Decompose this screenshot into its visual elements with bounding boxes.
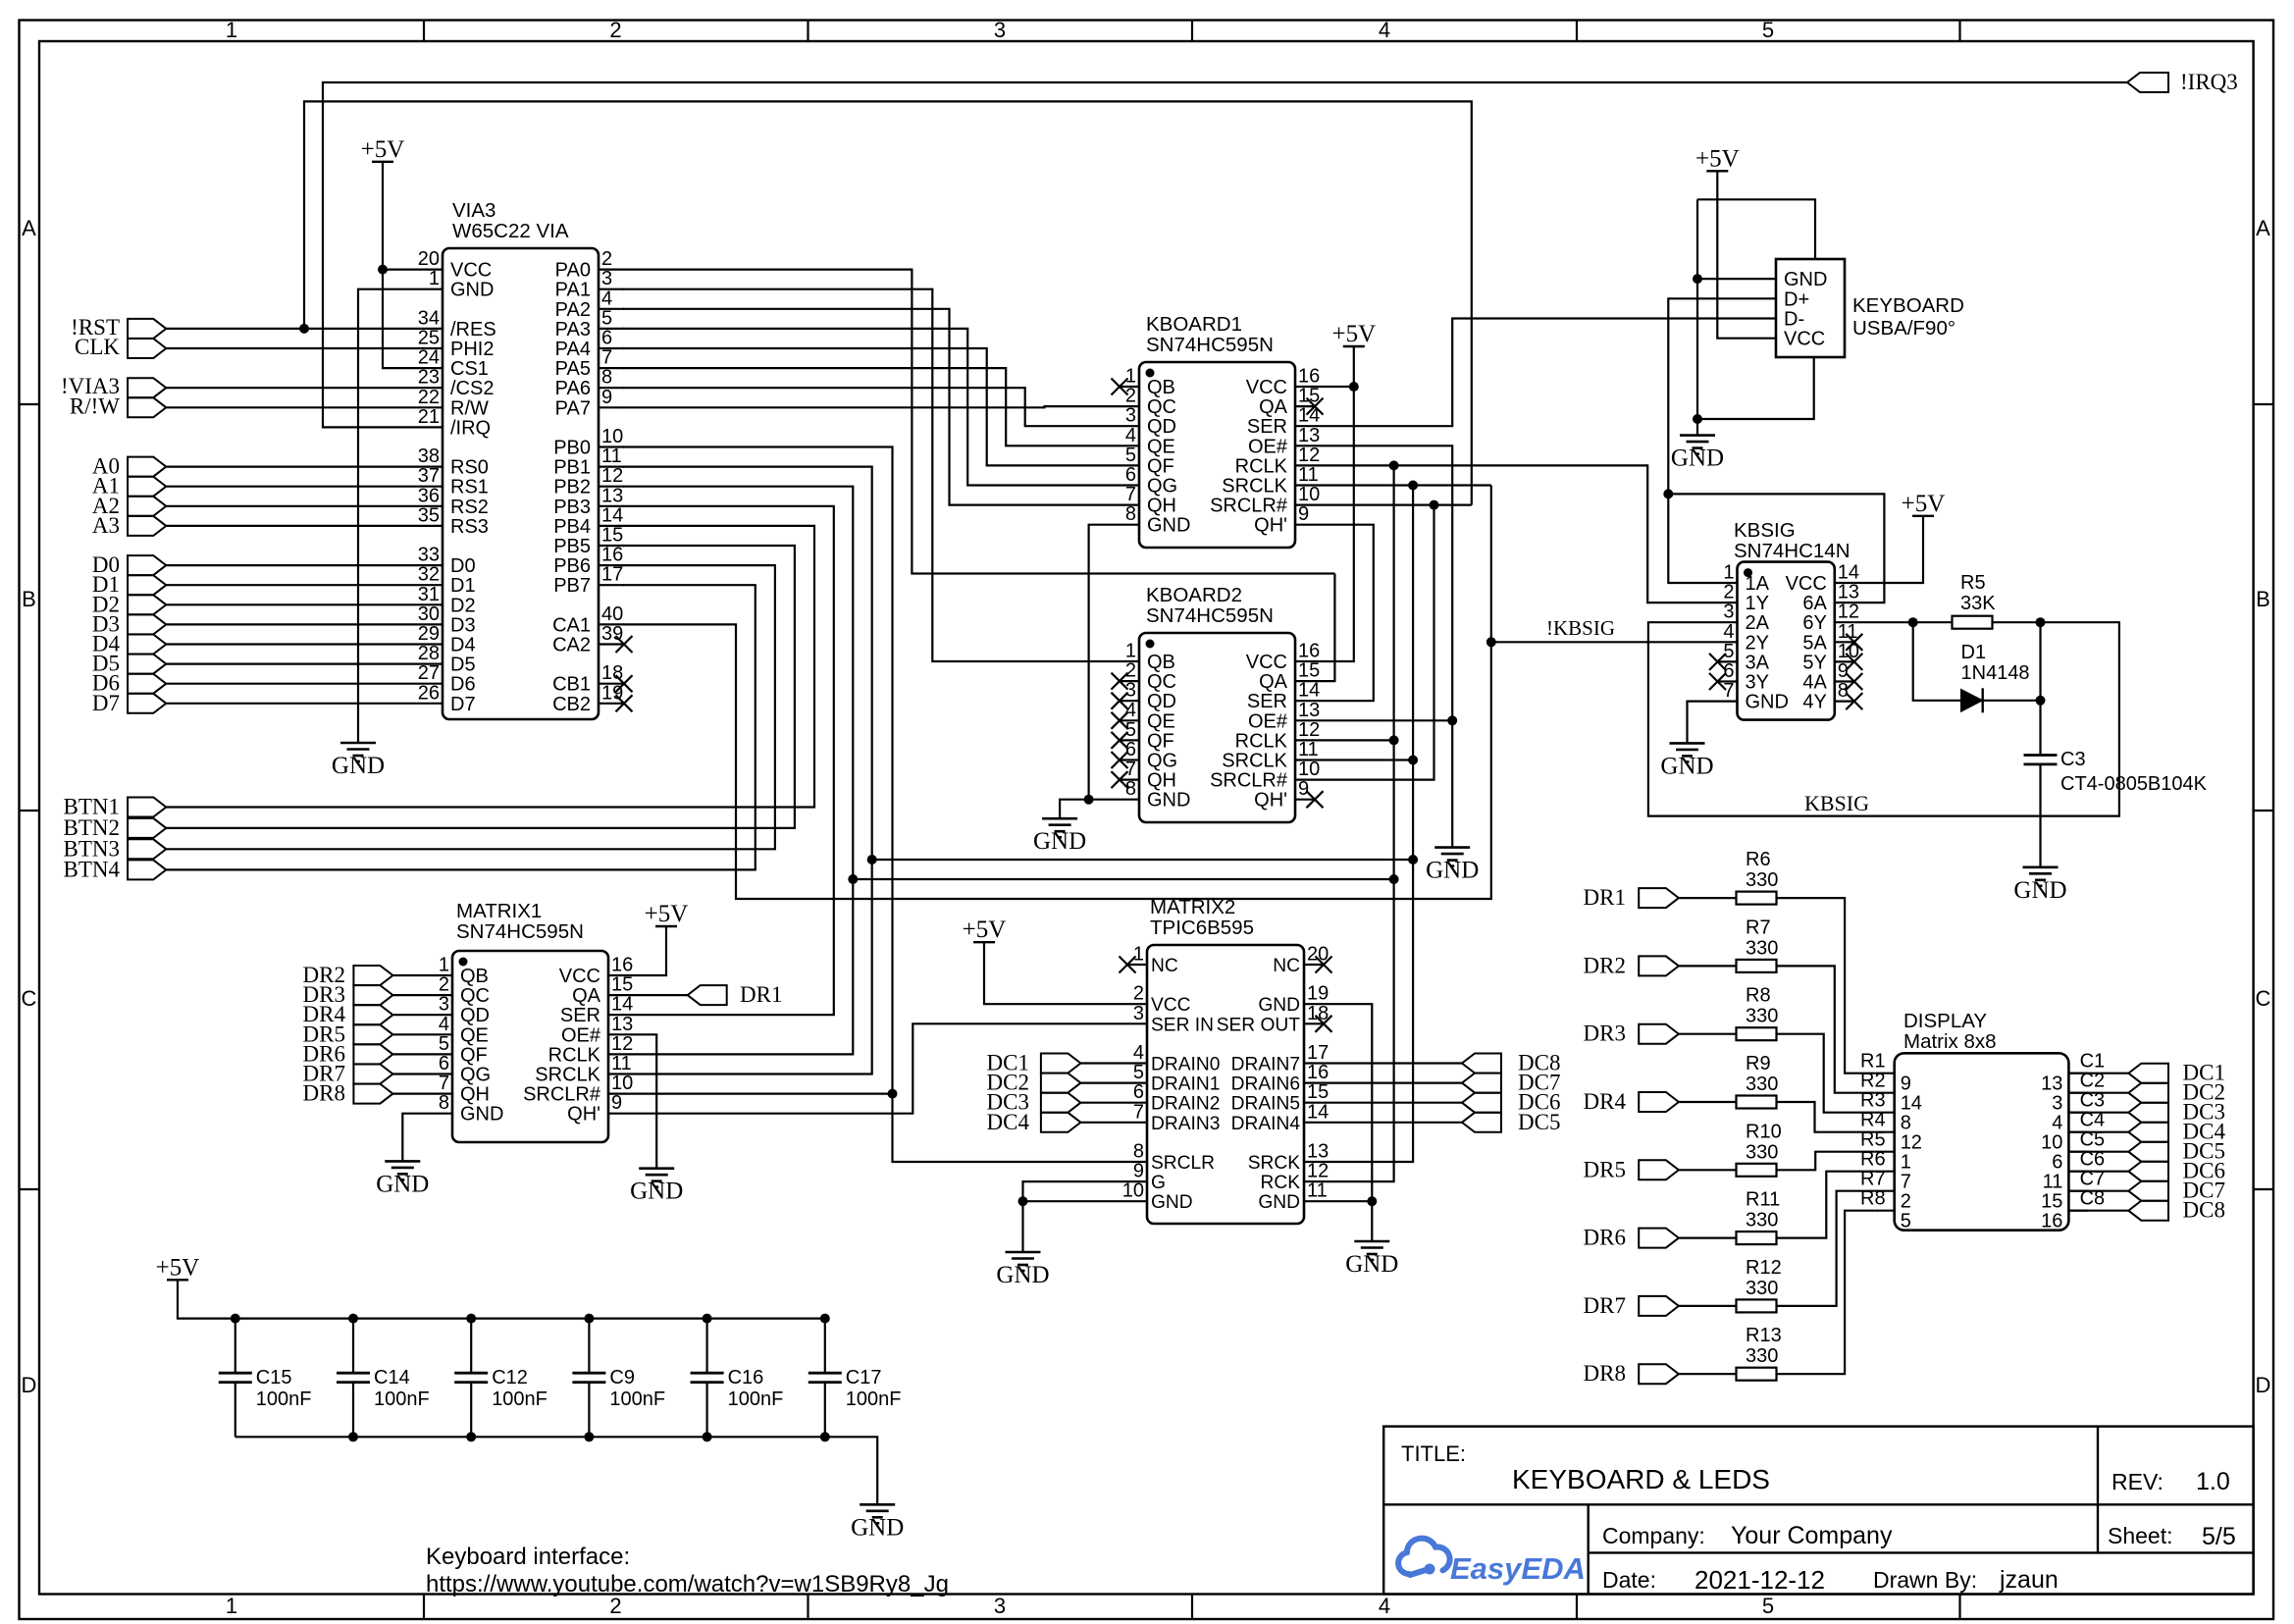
- wire D2: [166, 603, 417, 605]
- svg-text:SER OUT: SER OUT: [1217, 1015, 1301, 1035]
- wire DISPLAY C7: [2068, 1190, 2128, 1192]
- svg-text:4: 4: [601, 288, 612, 309]
- node RCLK KBOARD2 junction: [1389, 735, 1399, 745]
- svg-text:QE: QE: [1147, 436, 1175, 457]
- svg-text:2: 2: [1723, 582, 1734, 603]
- svg-text:13: 13: [1298, 700, 1320, 721]
- wire RCLK KBOARD1 row to 1Y: [1315, 465, 1718, 602]
- node MATRIX2 GND right junction: [1367, 1196, 1377, 1206]
- svg-text:C: C: [2256, 986, 2271, 1011]
- svg-text:D6: D6: [450, 674, 476, 696]
- wire DC2: [1080, 1081, 1127, 1083]
- svg-text:Your Company: Your Company: [1731, 1522, 1893, 1549]
- wire DC1: [1080, 1062, 1127, 1064]
- svg-text:A: A: [22, 216, 36, 240]
- svg-text:RS0: RS0: [450, 457, 489, 479]
- svg-text:GND: GND: [1746, 692, 1789, 713]
- ground (MATRIX1 OE#): [639, 1167, 674, 1170]
- svg-text:R8: R8: [1860, 1188, 1886, 1210]
- wire D- to KBOARD1 SER: [1315, 319, 1756, 427]
- svg-text:QH: QH: [1147, 496, 1176, 517]
- svg-text:1A: 1A: [1746, 573, 1770, 595]
- resistor R5: [1953, 616, 1993, 629]
- svg-text:7: 7: [601, 347, 612, 369]
- svg-text:1: 1: [1125, 366, 1136, 388]
- wire DISPLAY C5: [2068, 1151, 2128, 1153]
- svg-text:GND: GND: [996, 1262, 1049, 1288]
- wire CLK to PHI2: [166, 347, 417, 349]
- svg-text:PB7: PB7: [553, 575, 591, 597]
- wire DR1 to resistor: [1679, 897, 1736, 899]
- U4 MATRIX1 SN74HC595N: [452, 951, 608, 1142]
- node PB0-MATRIX1 SRCLR# junction: [888, 1089, 898, 1099]
- svg-text:SN74HC14N: SN74HC14N: [1734, 540, 1851, 562]
- svg-text:4: 4: [1133, 1042, 1144, 1064]
- wire KBOARD GND: [1060, 525, 1120, 819]
- svg-text:PB3: PB3: [553, 497, 591, 518]
- svg-text:13: 13: [1838, 582, 1859, 603]
- wire D3: [166, 623, 417, 625]
- svg-text:KBSIG: KBSIG: [1734, 519, 1796, 542]
- svg-text:14: 14: [1838, 562, 1859, 584]
- wire MATRIX1 QH' to MATRIX2 SER IN: [628, 1023, 1127, 1113]
- svg-text:1.0: 1.0: [2196, 1468, 2230, 1495]
- ground (MATRIX2 left): [1006, 1251, 1041, 1254]
- wire PB5 to BTN2: [166, 546, 795, 828]
- svg-text:QB: QB: [1147, 652, 1175, 673]
- wire KEYBOARD shield bottom: [1697, 357, 1814, 419]
- net flag DC6: [1462, 1093, 1501, 1113]
- wire +5V to MATRIX2 VCC: [984, 942, 1127, 1004]
- svg-text:17: 17: [601, 564, 623, 586]
- wire RCLK chain vertical: [1324, 465, 1394, 1181]
- wire KBOARD2 QA readback: [1315, 574, 1334, 682]
- node KBOARD GND junction: [1084, 795, 1094, 805]
- svg-text:14: 14: [1901, 1093, 1922, 1115]
- wire DISPLAY C1: [2068, 1073, 2128, 1074]
- wire PA1: [623, 289, 1120, 661]
- svg-text:9: 9: [1133, 1161, 1144, 1182]
- wire PB0 / SRCLR# net to MATRIX: [623, 447, 1127, 1163]
- node SRCLK KBOARD2 junction: [1408, 756, 1418, 765]
- wire DC6: [1324, 1102, 1462, 1104]
- wire R6 to DISPLAY R1: [1777, 898, 1875, 1074]
- svg-text:330: 330: [1746, 1074, 1778, 1095]
- svg-text:Date:: Date:: [1602, 1567, 1656, 1593]
- svg-text:R1: R1: [1860, 1051, 1886, 1073]
- svg-text:GND: GND: [1345, 1251, 1398, 1278]
- svg-text:QB: QB: [1147, 377, 1175, 398]
- svg-text:1: 1: [1723, 562, 1734, 584]
- svg-text:14: 14: [1298, 405, 1320, 427]
- net flag D0: [128, 555, 166, 575]
- capacitor C9 100nF: [588, 1319, 590, 1374]
- wire R9 to DISPLAY R4: [1777, 1102, 1875, 1132]
- svg-text:GND: GND: [332, 753, 385, 779]
- capacitor C17 100nF: [824, 1319, 826, 1374]
- node C12 top junction: [466, 1314, 476, 1324]
- svg-text:R6: R6: [1860, 1149, 1886, 1171]
- wire SRCLR# chain vertical: [1315, 505, 1434, 780]
- svg-text:OE#: OE#: [1248, 710, 1288, 732]
- wire DR8 to MATRIX1: [392, 1092, 433, 1094]
- svg-text:DC8: DC8: [2183, 1198, 2225, 1223]
- svg-text:40: 40: [601, 603, 623, 625]
- resistor R11 330: [1737, 1231, 1777, 1244]
- wire KBSIG GND: [1688, 702, 1718, 744]
- svg-text:A: A: [2256, 216, 2270, 240]
- svg-text:C12: C12: [492, 1367, 528, 1388]
- node C9 top junction: [584, 1314, 594, 1324]
- svg-text:+5V: +5V: [1902, 491, 1946, 517]
- svg-text:6A: 6A: [1802, 593, 1827, 614]
- svg-text:2021-12-12: 2021-12-12: [1694, 1565, 1825, 1595]
- svg-text:4A: 4A: [1802, 672, 1827, 694]
- node C17 bottom junction: [820, 1432, 830, 1441]
- svg-text:28: 28: [418, 643, 440, 664]
- svg-text:GND: GND: [460, 1104, 503, 1126]
- svg-text:12: 12: [1298, 445, 1320, 466]
- svg-text:DR6: DR6: [1584, 1226, 1626, 1250]
- net flag D2: [128, 595, 166, 614]
- svg-text:6: 6: [2052, 1152, 2062, 1174]
- svg-text:32: 32: [418, 564, 440, 586]
- svg-text:QG: QG: [1147, 476, 1177, 498]
- U7 DISPLAY Matrix 8x8: [1895, 1053, 2069, 1230]
- svg-text:5A: 5A: [1802, 632, 1827, 654]
- wire !RST to /RES: [166, 328, 417, 330]
- svg-text:330: 330: [1746, 937, 1778, 959]
- svg-text:GND: GND: [1258, 1192, 1300, 1213]
- net flag DC3 (display side): [2128, 1103, 2168, 1123]
- svg-text:SER IN: SER IN: [1151, 1015, 1214, 1035]
- wire KBOARD2 RCLK stub run: [1315, 739, 1394, 741]
- svg-text:3: 3: [1723, 602, 1734, 623]
- svg-text:RS3: RS3: [450, 516, 489, 538]
- svg-text:D4: D4: [450, 635, 476, 656]
- net flag A1: [128, 477, 166, 497]
- svg-text:USBA/F90°: USBA/F90°: [1852, 317, 1955, 340]
- svg-text:PA3: PA3: [555, 319, 591, 341]
- net flag DC2: [1041, 1074, 1081, 1093]
- wire R/!W to R/W: [166, 406, 417, 408]
- svg-text:R7: R7: [1746, 917, 1771, 938]
- svg-text:7: 7: [1125, 759, 1136, 780]
- node MATRIX2 GND left junction: [1018, 1196, 1028, 1206]
- svg-text:QC: QC: [1147, 671, 1176, 693]
- net flag BTN4: [128, 860, 166, 879]
- svg-text:3: 3: [439, 994, 449, 1016]
- svg-text:GND: GND: [1426, 858, 1479, 884]
- wire PB7 to BTN4: [166, 585, 756, 869]
- svg-text:2Y: 2Y: [1746, 632, 1769, 654]
- svg-text:+5V: +5V: [156, 1254, 200, 1281]
- wire PA4: [623, 348, 1120, 465]
- svg-text:14: 14: [601, 504, 623, 526]
- svg-text:4: 4: [1125, 425, 1136, 446]
- svg-text:19: 19: [1307, 983, 1329, 1005]
- svg-text:DISPLAY: DISPLAY: [1903, 1010, 1987, 1032]
- svg-text:4: 4: [1379, 18, 1390, 42]
- svg-text:QG: QG: [1147, 751, 1177, 772]
- svg-text:6: 6: [1125, 464, 1136, 486]
- net flag BTN2: [128, 818, 166, 838]
- svg-text:SRCLR#: SRCLR#: [1210, 770, 1288, 792]
- svg-text:QF: QF: [460, 1044, 488, 1066]
- wire DR4 to resistor: [1679, 1101, 1736, 1103]
- net flag DC8 (display side): [2128, 1201, 2168, 1221]
- svg-text:16: 16: [601, 545, 623, 566]
- svg-text:CLK: CLK: [75, 335, 120, 359]
- node RCLK link junction: [1389, 874, 1399, 884]
- node PB1 SRCLK link junction: [867, 855, 877, 864]
- svg-text:SRCLR#: SRCLR#: [523, 1084, 601, 1106]
- svg-text:3: 3: [994, 1594, 1006, 1618]
- svg-text:+5V: +5V: [645, 901, 689, 927]
- svg-text:7: 7: [1125, 484, 1136, 505]
- svg-text:PA0: PA0: [555, 260, 591, 282]
- svg-text:100nF: 100nF: [609, 1388, 665, 1410]
- svg-text:+5V: +5V: [1695, 145, 1740, 172]
- wire KBOARD1 QH' to KBOARD2 SER: [1315, 525, 1374, 702]
- svg-text:KBSIG: KBSIG: [1804, 791, 1869, 815]
- wire DR7 to MATRIX1: [392, 1073, 433, 1074]
- wire MATRIX1 SRCLR# stub run: [628, 1092, 893, 1094]
- node C9 bottom junction: [584, 1432, 594, 1441]
- svg-text:QD: QD: [1147, 416, 1176, 438]
- wire PA5: [623, 368, 1120, 445]
- net flag DC8: [1462, 1054, 1501, 1074]
- node RCLK chain top junction: [1389, 460, 1399, 470]
- wire A2 to RS2: [166, 505, 417, 507]
- ground (MATRIX1): [385, 1160, 420, 1163]
- svg-text:17: 17: [1307, 1042, 1329, 1064]
- svg-text:PA1: PA1: [555, 280, 591, 301]
- net flag D7: [128, 694, 166, 713]
- wire PB3 to MATRIX1 SER: [623, 506, 834, 1015]
- net flag DC4 (display side): [2128, 1123, 2168, 1142]
- svg-text:R9: R9: [1746, 1053, 1771, 1074]
- svg-text:PA6: PA6: [555, 378, 591, 399]
- net flag DR3: [353, 985, 392, 1005]
- svg-text:10: 10: [1298, 759, 1320, 780]
- svg-text:C14: C14: [374, 1367, 410, 1388]
- svg-text:6Y: 6Y: [1802, 612, 1826, 634]
- net flag DR1 (display side): [1639, 888, 1679, 908]
- svg-text:11: 11: [611, 1053, 632, 1074]
- svg-text:5: 5: [1125, 445, 1136, 466]
- svg-text:4: 4: [2052, 1113, 2062, 1134]
- wire +5V to KBOARD VCC: [1315, 346, 1354, 661]
- svg-text:6: 6: [1133, 1081, 1144, 1103]
- svg-text:100nF: 100nF: [492, 1388, 547, 1410]
- svg-text:SRCK: SRCK: [1248, 1153, 1301, 1174]
- node KEYBOARD GND junction: [1693, 274, 1702, 284]
- net flag D5: [128, 655, 166, 674]
- U5 MATRIX2 TPIC6B595: [1147, 945, 1304, 1224]
- svg-text:VCC: VCC: [450, 260, 492, 282]
- svg-text:5: 5: [1723, 641, 1734, 662]
- svg-text:16: 16: [2041, 1211, 2062, 1232]
- wire PB1 / SRCLK net: [623, 467, 872, 1074]
- svg-text:5: 5: [601, 307, 612, 329]
- net flag DR1: [688, 985, 727, 1005]
- wire D1: [166, 584, 417, 586]
- wire KEYBOARD GND: [1697, 278, 1756, 280]
- svg-text:1N4148: 1N4148: [1961, 662, 2030, 684]
- svg-text:GND: GND: [1151, 1192, 1193, 1213]
- svg-text:R10: R10: [1746, 1121, 1782, 1142]
- wire PB6 to BTN3: [166, 565, 775, 849]
- svg-text:33: 33: [418, 545, 440, 566]
- svg-text:11: 11: [601, 445, 622, 467]
- svg-text:/RES: /RES: [450, 319, 496, 341]
- wire PA6: [623, 388, 1120, 426]
- svg-text:16: 16: [611, 955, 633, 976]
- wire DC5: [1324, 1122, 1462, 1124]
- svg-text:26: 26: [418, 682, 440, 704]
- ground (OE# net): [1434, 846, 1470, 849]
- svg-text:QC: QC: [460, 985, 490, 1007]
- svg-text:GND: GND: [1660, 753, 1713, 779]
- svg-text:TITLE:: TITLE:: [1401, 1441, 1466, 1466]
- svg-text:R12: R12: [1746, 1257, 1782, 1279]
- svg-text:NC: NC: [1151, 956, 1178, 976]
- svg-text:SRCLK: SRCLK: [535, 1065, 600, 1086]
- svg-text:1: 1: [1901, 1152, 1911, 1174]
- svg-text:6: 6: [1125, 739, 1136, 760]
- U2 KBOARD1 SN74HC595N: [1139, 362, 1295, 548]
- wire DR7 to resistor: [1679, 1305, 1736, 1307]
- wire +5V to VIA3 VCC and CS1: [383, 162, 417, 368]
- wire DISPLAY C8: [2068, 1210, 2128, 1212]
- svg-text:12: 12: [1298, 719, 1320, 741]
- svg-text:Sheet:: Sheet:: [2108, 1523, 2173, 1548]
- svg-text:29: 29: [418, 623, 440, 645]
- svg-text:C16: C16: [728, 1367, 764, 1388]
- svg-text:5: 5: [1125, 719, 1136, 741]
- ground (C3): [2023, 865, 2059, 868]
- svg-text:C1: C1: [2080, 1051, 2106, 1073]
- wire D0: [166, 564, 417, 566]
- ground (KEYBOARD): [1680, 434, 1715, 437]
- svg-text:10: 10: [2041, 1132, 2062, 1154]
- svg-text:QD: QD: [1147, 691, 1176, 712]
- svg-text:D3: D3: [450, 614, 476, 636]
- svg-text:!IRQ3: !IRQ3: [2180, 70, 2238, 94]
- svg-text:R/!W: R/!W: [70, 393, 120, 418]
- svg-text:SN74HC595N: SN74HC595N: [1146, 604, 1274, 627]
- svg-text:C17: C17: [846, 1367, 882, 1388]
- svg-text:DR4: DR4: [1584, 1089, 1627, 1114]
- svg-text:QE: QE: [460, 1024, 489, 1046]
- svg-text:31: 31: [418, 584, 440, 605]
- wire SRCLR# KBOARD1 row: [1315, 503, 1472, 505]
- svg-text:QG: QG: [460, 1065, 491, 1086]
- svg-text:34: 34: [418, 307, 440, 329]
- wire DC3: [1080, 1102, 1127, 1104]
- svg-text:Matrix 8x8: Matrix 8x8: [1903, 1030, 1997, 1053]
- svg-text:D: D: [2256, 1373, 2271, 1397]
- net flag DC6 (display side): [2128, 1162, 2168, 1181]
- wire PA3: [623, 329, 1120, 486]
- node C16 bottom junction: [703, 1432, 712, 1441]
- svg-text:5: 5: [1762, 1594, 1774, 1618]
- svg-text:GND: GND: [1784, 269, 1827, 290]
- svg-text:5: 5: [1762, 18, 1774, 42]
- svg-text:QB: QB: [460, 966, 489, 987]
- svg-text:Company:: Company:: [1602, 1523, 1705, 1548]
- svg-text:QF: QF: [1147, 455, 1174, 477]
- svg-text:VCC: VCC: [1246, 377, 1287, 398]
- wire D+ to KBSIG 1A and 6A: [1668, 298, 1756, 583]
- node R5 left junction: [1908, 617, 1918, 627]
- svg-text:7: 7: [439, 1073, 449, 1094]
- svg-text:12: 12: [611, 1033, 633, 1055]
- node VIA3 VCC junction: [378, 265, 388, 275]
- svg-text:3: 3: [1125, 680, 1136, 702]
- wire PB2 / RCLK net: [623, 487, 853, 1055]
- svg-text:3A: 3A: [1746, 652, 1770, 673]
- svg-text:RS1: RS1: [450, 477, 489, 498]
- wire MATRIX2 GND right: [1324, 1004, 1372, 1241]
- net flag !VIA3: [128, 378, 166, 397]
- svg-text:PA2: PA2: [555, 299, 591, 321]
- svg-text:NC: NC: [1273, 956, 1300, 976]
- svg-text:11: 11: [2043, 1172, 2063, 1193]
- node SRCLR# chain junction: [1430, 500, 1439, 510]
- wire PA7: [623, 406, 1120, 407]
- svg-text:16: 16: [1298, 641, 1320, 662]
- svg-text:B: B: [22, 587, 36, 611]
- svg-text:SN74HC595N: SN74HC595N: [456, 920, 584, 943]
- net flag A3: [128, 516, 166, 536]
- node OE# junction: [1447, 715, 1457, 725]
- svg-text:2: 2: [1125, 386, 1136, 407]
- wire R7 to DISPLAY R2: [1777, 966, 1875, 1092]
- wire DR3 to MATRIX1: [392, 994, 433, 996]
- svg-text:DC5: DC5: [1518, 1110, 1560, 1134]
- svg-text:100nF: 100nF: [728, 1388, 784, 1410]
- wire PB4 to BTN1: [166, 526, 814, 808]
- svg-text:13: 13: [1298, 425, 1320, 446]
- wire SRCLK link: [872, 859, 1413, 861]
- svg-text:23: 23: [418, 367, 440, 389]
- svg-text:5: 5: [1901, 1211, 1911, 1232]
- svg-text:100nF: 100nF: [374, 1388, 430, 1410]
- svg-text:RCLK: RCLK: [548, 1044, 601, 1066]
- svg-text:DR2: DR2: [1584, 953, 1626, 977]
- svg-text:DRAIN7: DRAIN7: [1231, 1055, 1300, 1075]
- svg-text:3: 3: [2052, 1093, 2062, 1115]
- svg-text:DR1: DR1: [740, 982, 782, 1007]
- svg-text:DRAIN5: DRAIN5: [1231, 1094, 1300, 1115]
- wire OE# to GND net: [1315, 445, 1452, 847]
- svg-text:D+: D+: [1784, 288, 1809, 310]
- svg-text:QH: QH: [1147, 770, 1176, 792]
- svg-text:DR3: DR3: [1584, 1022, 1626, 1046]
- svg-text:CA2: CA2: [552, 635, 591, 656]
- svg-text:QA: QA: [1259, 396, 1288, 418]
- svg-text:4: 4: [1379, 1594, 1390, 1618]
- node C14 top junction: [348, 1314, 358, 1324]
- net flag DR8 (display side): [1639, 1364, 1679, 1384]
- svg-text:1: 1: [1133, 944, 1144, 966]
- wire DC8: [1324, 1062, 1462, 1064]
- svg-text:+5V: +5V: [963, 917, 1007, 943]
- net flag DC2 (display side): [2128, 1083, 2168, 1103]
- wire KBOARD2 OE#: [1315, 719, 1452, 721]
